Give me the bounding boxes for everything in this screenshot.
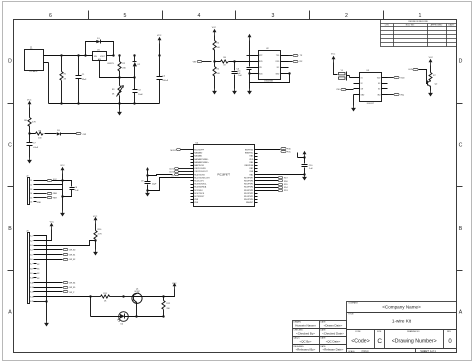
power VCC crystal [331, 53, 338, 74]
svg-text:OW: OW [336, 89, 340, 91]
svg-text:VCC: VCC [429, 57, 434, 59]
svg-text:RB1: RB1 [250, 174, 254, 176]
node VIN port [193, 60, 212, 63]
capacitor C9 xtal [141, 168, 157, 192]
power VCC U2 [248, 34, 252, 67]
svg-text:DCJACK: DCJACK [29, 70, 38, 73]
diode D1 bypass over regulator [84, 38, 114, 57]
revision record table [381, 20, 457, 47]
port VDD right U3 [388, 76, 406, 79]
port MCLR [171, 148, 191, 152]
wire U4 VSS to gnd [258, 174, 305, 176]
port J3 pin13 [37, 290, 76, 294]
svg-text:OSC2/CLKOUT: OSC2/CLKOUT [194, 171, 208, 173]
svg-text:C: C [459, 143, 463, 149]
MCU U4 [194, 142, 255, 206]
ground J3 [44, 321, 49, 327]
svg-text:3-4: 3-4 [30, 250, 33, 252]
svg-text:RC3/SCK/SCL: RC3/SCK/SCL [194, 184, 206, 186]
wire J2 pin1 to VCC node [37, 179, 63, 182]
svg-text:DATE:: DATE: [449, 24, 455, 27]
svg-text:3-10: 3-10 [30, 278, 34, 280]
port J3 pin4 [37, 248, 76, 251]
svg-text:<Released By>: <Released By> [296, 348, 316, 352]
svg-text:1: 1 [419, 13, 422, 19]
svg-text:RB6/PGC: RB6/PGC [245, 153, 254, 155]
ground U2 [247, 89, 252, 95]
svg-text:RA3/AN3/VREF+: RA3/AN3/VREF+ [194, 161, 209, 164]
resistor R12 [162, 295, 171, 317]
resistor R5 [213, 60, 221, 88]
svg-text:2: 2 [345, 13, 348, 19]
port RX [289, 60, 304, 63]
svg-text:RC7/RX/DT: RC7/RX/DT [194, 196, 205, 198]
svg-text:VCC: VCC [212, 27, 217, 29]
wire J3 pin15 to gnd bus [37, 300, 48, 320]
resonator Y1 [339, 70, 360, 81]
power VCC 1wire pullup [27, 100, 32, 118]
svg-text:3-1: 3-1 [30, 236, 33, 238]
svg-text:CLK1: CLK1 [169, 168, 174, 170]
capacitor C1 [76, 54, 88, 104]
wire J3 pin14 LED drive [37, 296, 91, 298]
svg-text:3-3: 3-3 [30, 245, 33, 247]
wire J3 pin3 [37, 241, 96, 246]
port OW out [76, 132, 86, 136]
port J3 pin12 [37, 286, 76, 289]
svg-text:RD3/PSP3: RD3/PSP3 [244, 190, 253, 192]
port OSC1 [169, 167, 190, 170]
svg-text:MCLR/VPP: MCLR/VPP [194, 150, 204, 152]
svg-text:VCC: VCC [53, 179, 58, 181]
svg-text:RA0/AN0: RA0/AN0 [194, 152, 202, 155]
svg-text:RB7/PGD: RB7/PGD [245, 150, 254, 152]
port J2 pin5 [37, 196, 57, 199]
zone labels top [49, 13, 422, 19]
svg-text:RB3/PGM: RB3/PGM [245, 165, 254, 167]
svg-text:RA2/AN2/VREF-: RA2/AN2/VREF- [194, 158, 208, 161]
port RD6 [258, 179, 288, 182]
connector J3 16pin [26, 230, 36, 303]
svg-text:OW_B2: OW_B2 [69, 259, 75, 261]
port J3 pin5 [37, 253, 76, 256]
svg-text:PGC: PGC [287, 152, 292, 154]
svg-text:3-14: 3-14 [30, 296, 34, 298]
svg-text:RB6: RB6 [53, 193, 57, 195]
wire J2 pin2 [37, 184, 63, 186]
svg-text:2-3: 2-3 [30, 189, 33, 191]
svg-text:D: D [459, 59, 463, 65]
power flag VCC top rail [157, 35, 162, 55]
ground xtal [145, 191, 150, 197]
svg-text:1-wire Kit: 1-wire Kit [392, 319, 412, 324]
svg-text:3-12: 3-12 [30, 287, 34, 289]
port OW to U3 [336, 88, 353, 91]
svg-text:C: C [8, 143, 12, 149]
svg-text:2-4: 2-4 [30, 193, 33, 195]
svg-text:OSC1/CLKIN: OSC1/CLKIN [194, 168, 206, 170]
wire U4 pin RB7 to ports [258, 147, 292, 153]
ground C7 [27, 158, 32, 164]
svg-text:3-9: 3-9 [30, 273, 33, 275]
wire U1 adj [100, 61, 135, 78]
svg-text:RC6/TX/CK: RC6/TX/CK [194, 193, 205, 195]
port J2 pin4 [37, 192, 57, 195]
svg-text:OW_B0: OW_B0 [69, 250, 75, 252]
svg-text:3: 3 [272, 13, 275, 19]
capacitor C7 [27, 134, 39, 158]
resistor R8 pullup [24, 118, 36, 134]
svg-text:DS2417: DS2417 [367, 103, 375, 105]
svg-text:<Checked By>: <Checked By> [296, 331, 315, 335]
svg-text:3-6: 3-6 [30, 259, 33, 261]
svg-text:<Orig>: <Orig> [361, 349, 369, 353]
wire to VCC bottom [164, 283, 177, 297]
svg-text:B: B [8, 226, 12, 232]
power flag VCC divider [212, 27, 217, 35]
svg-text:RD5: RD5 [284, 184, 288, 186]
svg-text:C: C [377, 338, 382, 345]
svg-text:DRAWING NO: DRAWING NO [407, 330, 420, 333]
port RD3 [258, 189, 288, 192]
ground Q2 [428, 91, 433, 97]
svg-text:4.7K: 4.7K [98, 234, 103, 236]
svg-text:A: A [8, 310, 12, 316]
svg-text:RD6: RD6 [284, 181, 288, 183]
resistor R9 series [28, 130, 56, 139]
svg-text:MCLR: MCLR [171, 150, 177, 152]
wire J2 pin3 [37, 189, 63, 191]
svg-text:REVISION RECORD: REVISION RECORD [408, 21, 428, 23]
trimmer RV1 [112, 78, 124, 105]
svg-text:4.7K: 4.7K [32, 122, 37, 124]
wire top rail input [49, 55, 93, 57]
power VCC U4 [303, 151, 307, 164]
svg-text:VCC: VCC [157, 35, 162, 37]
svg-text:RC2/CCP1: RC2/CCP1 [194, 181, 203, 183]
power VCC Q2 [429, 57, 434, 72]
svg-text:3-5: 3-5 [30, 254, 33, 256]
svg-text:RD3: RD3 [284, 190, 288, 192]
svg-text:VDD: VDD [400, 78, 405, 80]
svg-text:VCC: VCC [27, 100, 32, 102]
wire bottom rail [49, 63, 160, 104]
capacitor C5 [232, 60, 243, 88]
transistor Q2 [428, 81, 439, 91]
svg-text:<Release Date>: <Release Date> [323, 348, 344, 352]
svg-text:3-11: 3-11 [30, 282, 34, 284]
svg-text:<QC Date>: <QC Date> [326, 340, 341, 344]
U4 pin names right [244, 150, 254, 205]
svg-text:A: A [459, 310, 463, 316]
svg-text:3-15: 3-15 [30, 301, 34, 303]
port RD4 [258, 186, 288, 189]
svg-text:RC0/T1OSO: RC0/T1OSO [194, 174, 205, 176]
resistor R4 [213, 36, 221, 62]
svg-text:SIZE: SIZE [377, 331, 382, 333]
svg-text:4: 4 [198, 13, 201, 19]
ground R10 [93, 250, 98, 256]
svg-text:RC5/SDO: RC5/SDO [194, 190, 203, 192]
wire xtal cap to OSC2 [148, 178, 191, 191]
resistor R2 [118, 54, 127, 78]
svg-text:RB0/INT: RB0/INT [246, 202, 254, 204]
svg-text:OW_P: OW_P [69, 292, 75, 294]
U4 pin stubs right [255, 150, 258, 203]
svg-text:2-1: 2-1 [30, 180, 33, 182]
ground J2 [60, 211, 65, 217]
svg-text:<QC By>: <QC By> [300, 340, 312, 344]
ground divider [212, 89, 217, 95]
svg-text:X1: X1 [361, 78, 363, 80]
svg-text:RD5/PSP5: RD5/PSP5 [244, 184, 253, 186]
svg-text:LM317L: LM317L [107, 63, 114, 65]
svg-text:<Checked Date>: <Checked Date> [322, 331, 344, 335]
svg-text:2-2: 2-2 [30, 185, 33, 187]
svg-text:OW: OW [83, 134, 87, 136]
wire J3 pin1 gnd bus [37, 236, 47, 302]
svg-text:BC337: BC337 [135, 291, 140, 293]
svg-text:RB7: RB7 [53, 198, 57, 200]
svg-text:RD1/PSP1: RD1/PSP1 [244, 196, 253, 198]
LED D4 [91, 312, 164, 326]
port J3 pin6 [37, 258, 76, 261]
ground U4 [302, 175, 307, 181]
svg-text:Hussein Nasser: Hussein Nasser [295, 323, 315, 327]
capacitor C3 [157, 54, 169, 103]
svg-text:RB4: RB4 [250, 162, 254, 164]
transistor Q1 [124, 288, 164, 316]
connector J1 DC jack [25, 47, 49, 73]
svg-text:TITLE:: TITLE: [348, 314, 354, 316]
svg-text:3-2: 3-2 [30, 240, 33, 242]
svg-text:CODE: CODE [355, 331, 361, 333]
op-amp U2 8pin [250, 48, 289, 83]
svg-text:ADJ: ADJ [98, 58, 101, 61]
svg-text:APPROVED:: APPROVED: [431, 24, 444, 27]
svg-text:3-7: 3-7 [30, 264, 33, 266]
zone labels right [459, 59, 463, 316]
svg-text:RB2: RB2 [250, 168, 254, 170]
svg-text:<Company Name>: <Company Name> [382, 304, 421, 309]
svg-text:D: D [8, 59, 12, 65]
svg-text:X2: X2 [361, 83, 363, 85]
svg-text:RA1/AN1: RA1/AN1 [194, 155, 202, 158]
svg-text:COMPANY:: COMPANY: [348, 302, 358, 305]
svg-text:RD4: RD4 [284, 187, 288, 189]
svg-text:RC4/SDI/SDA: RC4/SDI/SDA [194, 186, 207, 189]
svg-text:<Code>: <Code> [351, 338, 369, 344]
svg-text:D4: D4 [121, 323, 123, 325]
regulator U1 LM317 [93, 50, 115, 65]
svg-text:CLK2: CLK2 [169, 172, 174, 174]
svg-text:5: 5 [124, 13, 127, 19]
ground U3 [351, 95, 356, 112]
resistor R7 [429, 73, 436, 82]
svg-text:LED: LED [408, 69, 412, 71]
svg-text:VIN: VIN [193, 61, 197, 63]
svg-text:100uF: 100uF [162, 80, 168, 82]
connector J2 6pin [26, 176, 36, 205]
svg-text:VCC: VCC [331, 53, 336, 55]
svg-text:<Drawing Number>: <Drawing Number> [392, 338, 437, 344]
resistor R10 pullup [93, 216, 102, 250]
port J3 pin11 [37, 281, 76, 284]
svg-text:SCALE:: SCALE: [348, 350, 355, 353]
svg-text:33uF: 33uF [82, 79, 87, 81]
svg-text:VCC: VCC [60, 165, 65, 167]
svg-text:B: B [459, 226, 463, 232]
capacitor C2 [133, 78, 144, 105]
capacitor C6 [237, 68, 252, 83]
wire J3 pin2 vcc [37, 222, 55, 241]
sensor U3 8pin [354, 70, 388, 105]
svg-text:RC1/T1OSI/CCP2: RC1/T1OSI/CCP2 [194, 177, 209, 179]
power VCC J2 [60, 165, 65, 198]
wire U2 bottom loop [250, 72, 291, 88]
ground power rail [117, 102, 122, 115]
svg-text:<Drawn Date>: <Drawn Date> [324, 323, 343, 327]
svg-text:PGD: PGD [287, 149, 292, 151]
svg-text:.01uF: .01uF [33, 147, 39, 149]
svg-text:VOUT: VOUT [100, 56, 105, 58]
port OSC2 [169, 170, 190, 173]
ground C5 [232, 89, 237, 95]
zone labels left [8, 59, 12, 316]
capacitor C10 [302, 165, 314, 176]
svg-text:RD7/PSP7: RD7/PSP7 [244, 177, 253, 179]
svg-text:3-13: 3-13 [30, 292, 34, 294]
node LED drive junction [89, 295, 91, 316]
wire divider to U2 pin2 [235, 61, 259, 63]
svg-text:PIC16F877: PIC16F877 [217, 174, 230, 177]
U4 pin stubs left [191, 150, 194, 203]
svg-text:2-6: 2-6 [30, 202, 33, 204]
wire U4 VDD staircase [298, 153, 306, 159]
svg-text:VCC: VCC [172, 283, 177, 285]
svg-text:10uF: 10uF [138, 94, 143, 96]
svg-text:C9: C9 [141, 181, 143, 183]
wire xtal cap to OSC1 [148, 173, 191, 177]
svg-text:OW_B4: OW_B4 [69, 283, 75, 285]
svg-text:RD2/PSP2: RD2/PSP2 [244, 193, 253, 195]
resistor R6 series [215, 57, 235, 66]
svg-text:RB5: RB5 [250, 156, 254, 158]
svg-text:VDD: VDD [249, 159, 254, 161]
svg-text:SHEET: 1of 1: SHEET: 1of 1 [420, 349, 436, 353]
wire J2 gnd [62, 197, 64, 211]
port LED input [408, 68, 427, 83]
svg-text:1W: 1W [259, 67, 262, 69]
svg-text:RD4/PSP4: RD4/PSP4 [244, 187, 253, 189]
wire U2 pin1 [247, 55, 251, 57]
svg-text:RD0/PSP0: RD0/PSP0 [244, 199, 253, 201]
diode D3 [57, 130, 77, 136]
port TX [289, 54, 303, 57]
title block [293, 302, 457, 353]
port RD7 [258, 176, 288, 179]
diode D2 [133, 54, 142, 78]
svg-text:OW_B1: OW_B1 [69, 254, 75, 256]
svg-text:RA4/T0CKI: RA4/T0CKI [194, 164, 204, 167]
svg-text:6: 6 [49, 13, 52, 19]
svg-text:2-5: 2-5 [30, 197, 33, 199]
svg-text:1W: 1W [361, 89, 364, 91]
svg-text:VCC: VCC [50, 222, 55, 224]
port RD5 [258, 183, 288, 186]
svg-text:OW_B5: OW_B5 [69, 287, 75, 289]
svg-text:ECO NO:: ECO NO: [406, 25, 415, 27]
svg-text:RD6/PSP6: RD6/PSP6 [244, 181, 253, 183]
svg-text:LTR: LTR [385, 25, 389, 27]
U4 pin names left [194, 150, 209, 205]
svg-text:IRQ: IRQ [400, 94, 404, 96]
port IRQ right U3 [388, 93, 405, 96]
svg-text:GND: GND [37, 202, 42, 204]
resistor R11 base [91, 293, 125, 303]
svg-text:3-8: 3-8 [30, 268, 33, 270]
svg-text:VCC: VCC [93, 216, 98, 218]
svg-text:RD7: RD7 [284, 178, 288, 180]
capacitor C8 bracket [63, 181, 80, 197]
resistor R1 [60, 54, 67, 104]
